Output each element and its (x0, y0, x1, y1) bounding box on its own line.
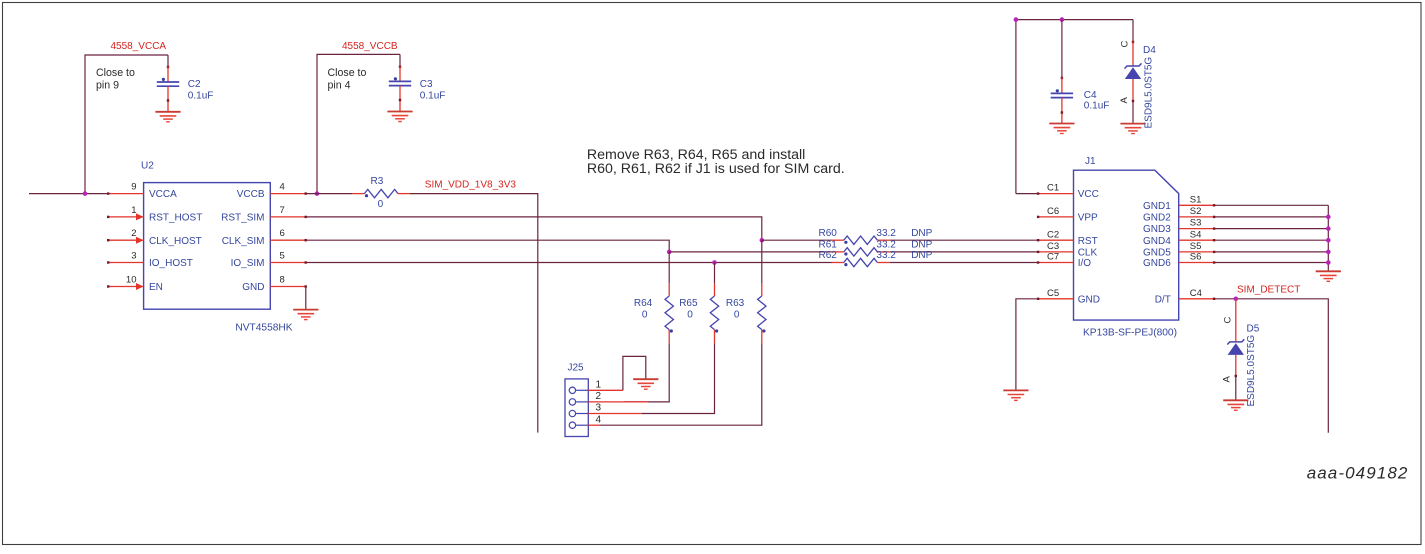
junction rail C4 (1060, 17, 1065, 22)
wire to R60 (762, 239, 832, 241)
IC U2 body (144, 183, 271, 310)
junction CLK/R61/R64 (667, 250, 672, 255)
pin C3.1 (399, 66, 401, 81)
pin C2.1 (167, 67, 169, 83)
wire CLK_SIM row (306, 240, 669, 252)
wire S5 (1215, 251, 1329, 253)
svg-text:2: 2 (596, 391, 602, 402)
wire C3 top (399, 54, 401, 66)
svg-text:D4: D4 (1143, 45, 1156, 56)
svg-text:R64: R64 (634, 298, 653, 309)
svg-text:0: 0 (642, 310, 648, 321)
svg-text:0: 0 (378, 199, 384, 210)
svg-text:VCCB: VCCB (237, 189, 265, 200)
pin J25.1 (588, 389, 623, 391)
pin R64.2 (668, 330, 670, 344)
junction RST/R60/R63 (760, 238, 765, 243)
wire D5 to ground (1235, 376, 1237, 400)
U2 pin 7 RST_SIM (270, 216, 306, 218)
svg-text:RST_SIM: RST_SIM (221, 213, 264, 224)
pin R62.1 (832, 262, 844, 264)
wire S4 (1215, 239, 1329, 241)
svg-text:S3: S3 (1190, 218, 1202, 229)
svg-text:DNP: DNP (911, 250, 932, 261)
svg-text:S5: S5 (1190, 241, 1202, 252)
pin C2.2 (167, 86, 169, 111)
pin R65.2 (714, 330, 716, 344)
svg-text:GND3: GND3 (1143, 224, 1171, 235)
J1 pin S1 GND1 (1179, 204, 1215, 206)
svg-text:9: 9 (131, 182, 136, 193)
wire D4 top (1132, 20, 1134, 42)
svg-text:C2: C2 (188, 79, 201, 90)
diode D5 (1227, 339, 1244, 344)
U2 pin 1 RST_HOST (108, 216, 144, 218)
svg-text:aaa-049182: aaa-049182 (1307, 464, 1409, 483)
svg-text:C5: C5 (1047, 288, 1059, 299)
J1 pin S3 GND3 (1179, 228, 1215, 230)
pin J25.2 (588, 401, 648, 403)
J1 pin C3 CLK (1038, 251, 1074, 253)
svg-text:J1: J1 (1085, 156, 1096, 167)
pin D4 cathode (1132, 42, 1134, 67)
pin R3.2 (398, 193, 410, 195)
svg-text:IO_HOST: IO_HOST (149, 258, 193, 269)
resistor R60 (844, 236, 878, 244)
wire S1 (1215, 204, 1329, 206)
svg-text:7: 7 (280, 205, 285, 216)
svg-text:8: 8 (280, 275, 285, 286)
svg-text:Close to: Close to (96, 67, 135, 79)
connector J1 body (1074, 170, 1179, 320)
connector J25 body (565, 379, 588, 437)
pin D5 anode (1235, 355, 1237, 376)
U2 pin 3 IO_HOST (108, 262, 144, 264)
J1 pin S4 GND4 (1179, 239, 1215, 241)
pin R60.1 (832, 239, 844, 241)
svg-text:C: C (1222, 317, 1233, 324)
junction S bus (1326, 215, 1331, 220)
svg-text:CLK_SIM: CLK_SIM (222, 236, 265, 247)
svg-text:1: 1 (131, 205, 136, 216)
svg-text:2: 2 (131, 228, 136, 239)
wire J1 GND to ground (1016, 299, 1038, 390)
junction rail left (1014, 17, 1019, 22)
pin D4 anode (1132, 79, 1134, 101)
wire RST_SIM row (306, 217, 762, 240)
pin J25.3 (588, 413, 642, 415)
svg-text:CLK_HOST: CLK_HOST (149, 236, 202, 247)
svg-text:0: 0 (687, 310, 693, 321)
wire C2 top (167, 55, 169, 67)
wire SIM_DETECT (1215, 299, 1329, 433)
svg-text:4558_VCCA: 4558_VCCA (111, 41, 167, 52)
junction IO/R65 (712, 260, 717, 265)
svg-text:VPP: VPP (1078, 213, 1098, 224)
svg-text:C1: C1 (1047, 183, 1059, 194)
wire C4 top (1061, 20, 1063, 78)
pin C4.1 (1061, 78, 1063, 94)
wire top rail (1016, 20, 1133, 194)
svg-text:J25: J25 (568, 363, 585, 374)
wire S6 (1215, 262, 1329, 264)
svg-text:VCCA: VCCA (149, 189, 177, 200)
svg-text:0.1uF: 0.1uF (188, 90, 214, 101)
svg-text:33.2: 33.2 (876, 228, 896, 239)
svg-text:DNP: DNP (911, 228, 932, 239)
J1 pin C4 D/T (1179, 298, 1215, 300)
svg-text:R3: R3 (371, 176, 384, 187)
resistor R64 (665, 296, 673, 330)
wire S3 (1215, 228, 1329, 230)
junction S bus (1326, 238, 1331, 243)
svg-text:C3: C3 (1047, 241, 1059, 252)
junction SIM_DETECT / D5 (1234, 297, 1239, 302)
J1 pin C6 VPP (1038, 216, 1074, 218)
resistor R63 (758, 296, 766, 330)
resistor R3 (364, 189, 398, 197)
J25 pin 4 (569, 422, 575, 428)
svg-text:C4: C4 (1084, 90, 1097, 101)
resistor R65 (710, 296, 718, 330)
wire to J1 C1 (1016, 193, 1038, 195)
svg-text:R62: R62 (819, 250, 838, 261)
wire J25 pin1 to ground (623, 356, 646, 390)
svg-text:I/O: I/O (1078, 258, 1092, 269)
svg-text:GND: GND (242, 282, 264, 293)
svg-text:C2: C2 (1047, 229, 1059, 240)
ground under C3 (387, 112, 412, 122)
svg-text:0: 0 (734, 310, 740, 321)
wire D4 to ground (1132, 101, 1134, 123)
pin C4.2 (1061, 98, 1063, 123)
U2 pin 10 EN (108, 286, 144, 288)
svg-text:pin 9: pin 9 (96, 79, 119, 91)
junction VCCA (83, 191, 88, 196)
svg-text:ESD9L5.0ST5G: ESD9L5.0ST5G (1144, 57, 1155, 129)
svg-text:4: 4 (596, 414, 602, 425)
svg-text:33.2: 33.2 (876, 250, 896, 261)
svg-text:GND1: GND1 (1143, 201, 1171, 212)
svg-text:0.1uF: 0.1uF (420, 90, 446, 101)
J25 pin 1 (569, 387, 575, 393)
svg-text:5: 5 (280, 251, 285, 262)
ground at J25 pin 1 (633, 379, 658, 389)
svg-text:RST: RST (1078, 236, 1098, 247)
svg-text:GND: GND (1078, 294, 1100, 305)
wire IO_SIM row (306, 262, 831, 264)
U2 pin 5 IO_SIM (270, 262, 306, 264)
pin R64.1 (668, 283, 670, 296)
svg-text:ESD9L5.0ST5G: ESD9L5.0ST5G (1246, 335, 1257, 407)
wire VCCA row left (29, 193, 108, 195)
capacitor C4 (1051, 93, 1073, 97)
svg-text:CLK: CLK (1078, 248, 1098, 259)
wire net SIM_VDD_1V8_3V3 (410, 194, 538, 433)
J1 pin S2 GND2 (1179, 216, 1215, 218)
J25 pin 2 (569, 399, 575, 405)
svg-text:3: 3 (131, 251, 136, 262)
svg-text:33.2: 33.2 (876, 240, 896, 251)
svg-text:KP13B-SF-PEJ(800): KP13B-SF-PEJ(800) (1083, 327, 1177, 338)
resistor R61 (844, 248, 878, 256)
svg-text:R61: R61 (819, 240, 838, 251)
svg-text:S1: S1 (1190, 194, 1202, 205)
wire RST vertical to R63 (761, 240, 763, 283)
svg-text:R60: R60 (819, 228, 838, 239)
pin D5 cathode (1235, 299, 1237, 320)
svg-text:U2: U2 (141, 161, 154, 172)
svg-text:RST_HOST: RST_HOST (149, 213, 202, 224)
svg-text:A: A (1119, 97, 1130, 104)
svg-text:3: 3 (596, 403, 602, 414)
pin R61.1 (832, 251, 844, 253)
wire VCCB to R3 (306, 193, 352, 195)
svg-text:GND6: GND6 (1143, 258, 1171, 269)
U2 pin 8 GND (270, 286, 306, 288)
J1 pin C7 I/O (1038, 262, 1074, 264)
wire 4558_VCCA rail (85, 55, 168, 194)
svg-text:GND2: GND2 (1143, 213, 1171, 224)
pin R65.1 (714, 283, 716, 296)
ground under C4 (1049, 124, 1074, 134)
svg-text:pin 4: pin 4 (328, 79, 351, 91)
J1 pin C2 RST (1038, 239, 1074, 241)
wire to R61 (669, 251, 831, 253)
capacitor C3 (389, 81, 411, 85)
capacitor C2 (157, 82, 179, 86)
svg-text:A: A (1222, 376, 1233, 383)
wire R64 to J25 pin 2 (624, 343, 669, 402)
U2 pin 2 CLK_HOST (108, 239, 144, 241)
wire CLK vertical to R64 (668, 252, 670, 284)
svg-text:IO_SIM: IO_SIM (231, 258, 265, 269)
svg-text:4558_VCCB: 4558_VCCB (342, 41, 398, 52)
J1 pin S5 GND5 (1179, 251, 1215, 253)
ground under U2 pin 8 (293, 310, 318, 320)
pin J25.4 (588, 424, 600, 426)
svg-text:0.1uF: 0.1uF (1084, 100, 1110, 111)
svg-text:R63: R63 (726, 298, 745, 309)
wire R61 to J1 (890, 251, 1038, 253)
svg-text:C6: C6 (1047, 206, 1059, 217)
svg-text:C3: C3 (420, 79, 433, 90)
wire R65 to J25 pin 3 (642, 343, 715, 413)
J1 pin C5 GND (1038, 298, 1074, 300)
svg-text:Close to: Close to (328, 67, 367, 79)
wire S bus vertical (1327, 205, 1329, 271)
J1 pin S6 GND6 (1179, 262, 1215, 264)
ground under D5 (1223, 400, 1248, 410)
junction S bus (1326, 226, 1331, 231)
junction S bus (1326, 260, 1331, 265)
svg-text:1: 1 (596, 380, 602, 391)
junction S bus (1326, 250, 1331, 255)
svg-text:DNP: DNP (911, 240, 932, 251)
svg-text:R65: R65 (679, 298, 698, 309)
svg-text:S4: S4 (1190, 229, 1202, 240)
svg-text:S6: S6 (1190, 252, 1202, 263)
pin R60.2 (877, 239, 889, 241)
ground under D4 (1120, 124, 1145, 134)
svg-text:10: 10 (126, 275, 137, 286)
svg-text:VCC: VCC (1078, 189, 1099, 200)
svg-text:C7: C7 (1047, 252, 1059, 263)
pin R3.1 (352, 193, 364, 195)
svg-text:4: 4 (280, 182, 285, 193)
wire R60 to J1 (890, 239, 1038, 241)
svg-text:EN: EN (149, 282, 163, 293)
ground under J1 GND (1003, 390, 1028, 400)
pin C3.2 (399, 86, 401, 111)
svg-text:R60, R61, R62 if J1 is used fo: R60, R61, R62 if J1 is used for SIM card… (587, 161, 845, 177)
svg-text:NVT4558HK: NVT4558HK (235, 322, 292, 333)
pin R61.2 (877, 251, 889, 253)
pin R62.2 (877, 262, 889, 264)
pin R63.1 (761, 283, 763, 296)
J1 pin C1 VCC (1038, 193, 1074, 195)
svg-text:C: C (1120, 41, 1131, 48)
svg-text:SIM_DETECT: SIM_DETECT (1237, 284, 1300, 295)
J25 pin 3 (569, 410, 575, 416)
U2 pin 4 VCCB (270, 193, 306, 195)
svg-text:GND5: GND5 (1143, 248, 1171, 259)
pin R63.2 (761, 330, 763, 344)
svg-text:D/T: D/T (1155, 294, 1171, 305)
svg-text:S2: S2 (1190, 206, 1202, 217)
junction VCCB (315, 191, 320, 196)
svg-text:SIM_VDD_1V8_3V3: SIM_VDD_1V8_3V3 (425, 179, 517, 190)
wire IO vertical to R65 (714, 263, 716, 284)
wire R62 to J1 (890, 262, 1038, 264)
svg-text:GND4: GND4 (1143, 236, 1171, 247)
diode D4 (1125, 63, 1142, 68)
U2 pin 6 CLK_SIM (270, 239, 306, 241)
ground under C2 (155, 112, 180, 122)
ground under S bus (1316, 271, 1341, 281)
svg-text:6: 6 (280, 228, 285, 239)
wire U2 GND to ground (305, 287, 308, 310)
U2 pin 9 VCCA (108, 193, 144, 195)
resistor R62 (844, 258, 878, 266)
wire 4558_VCCB rail (317, 54, 400, 193)
wire S2 (1215, 216, 1329, 218)
svg-text:C4: C4 (1190, 288, 1202, 299)
wire R63 to J25 pin 4 (600, 343, 762, 425)
svg-text:D5: D5 (1247, 324, 1260, 335)
